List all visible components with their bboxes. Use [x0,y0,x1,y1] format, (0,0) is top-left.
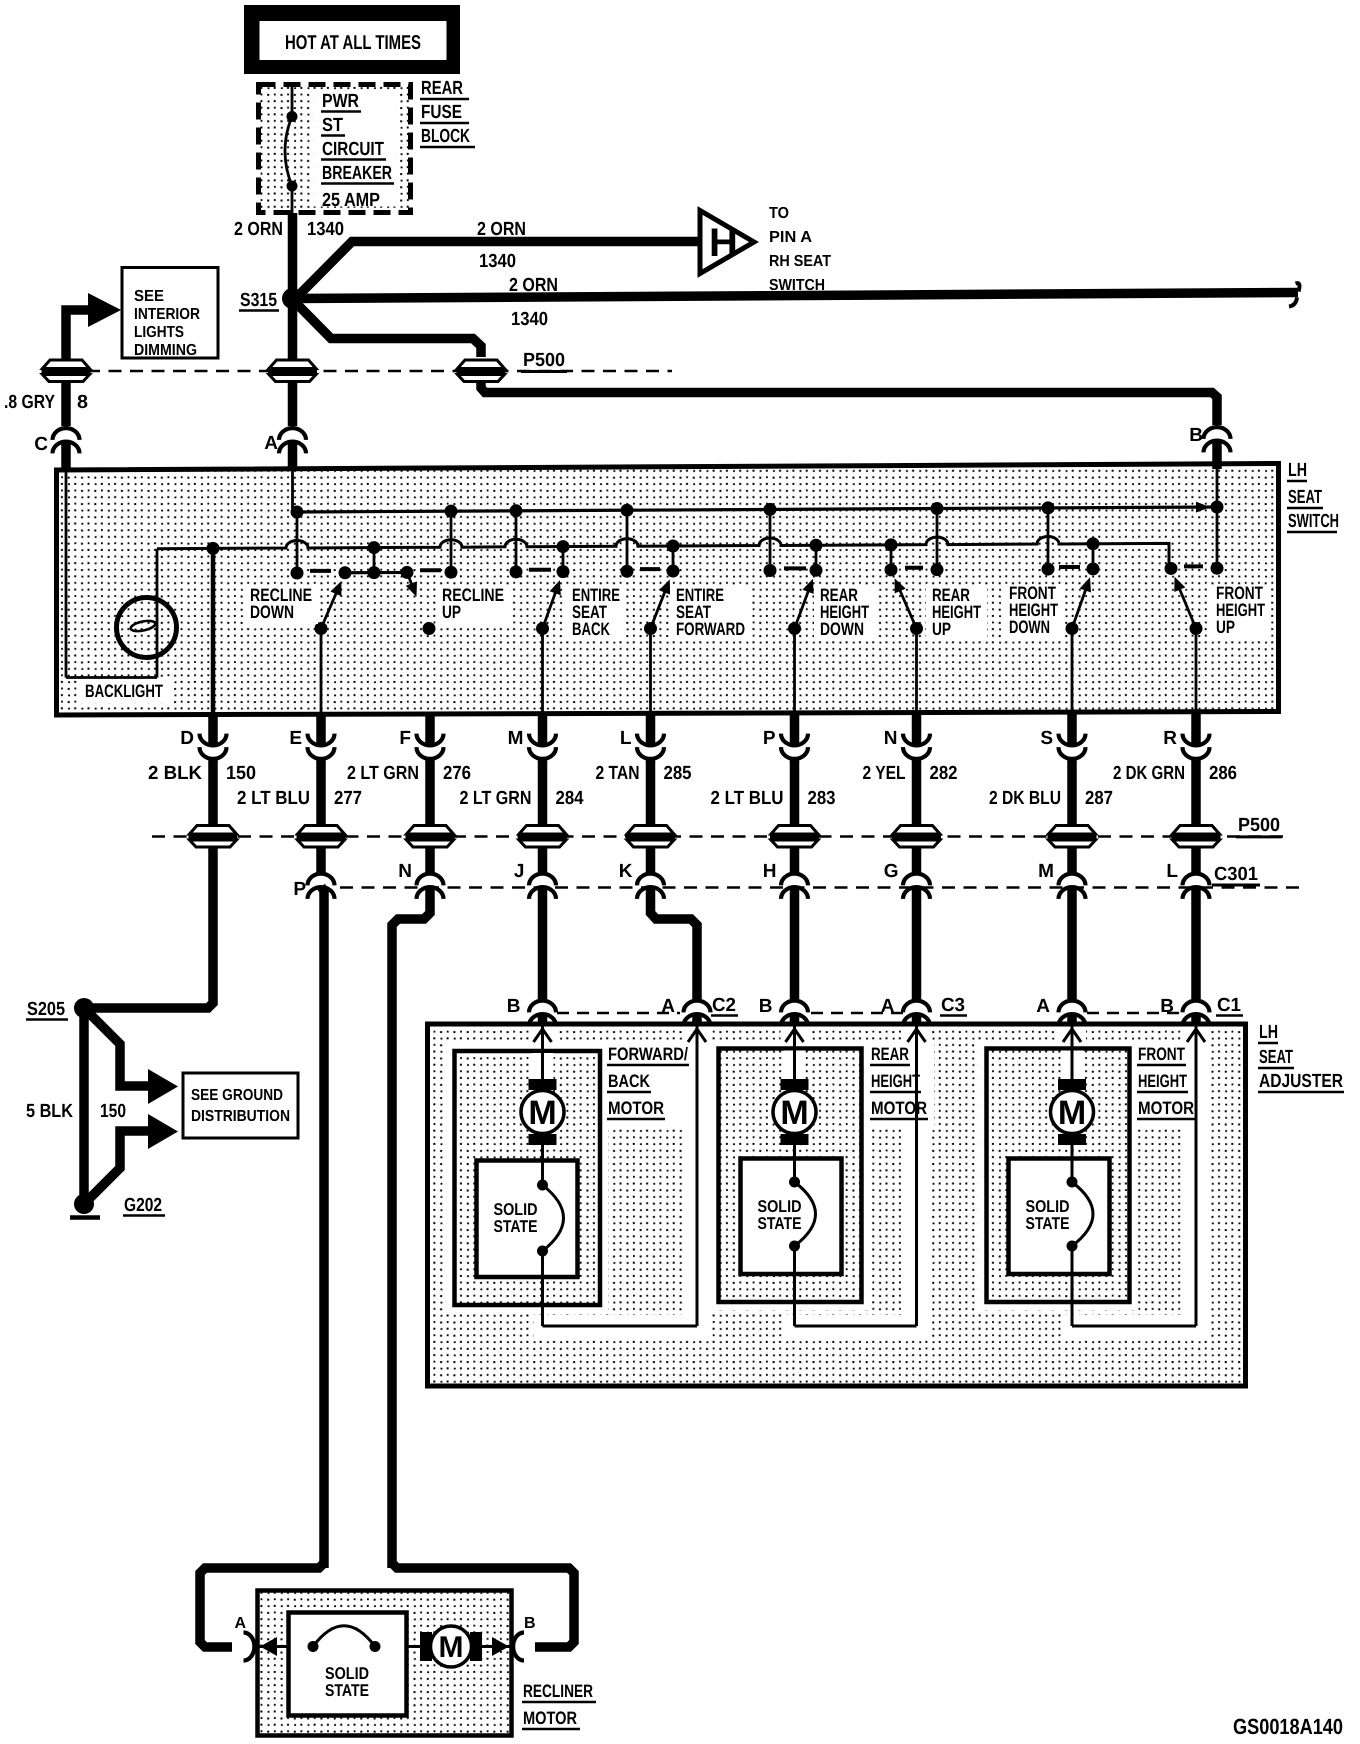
svg-text:C301: C301 [1214,864,1258,885]
svg-text:A: A [234,1615,246,1632]
label C2 [711,995,738,1016]
wire C1-A into adjuster box [1067,1014,1077,1026]
svg-text:G: G [884,861,899,882]
wire into pin C [61,383,71,426]
grommet P500 center [268,360,317,382]
label C3 [940,995,967,1016]
wire pin B to box [1212,440,1222,469]
svg-text:P500: P500 [1238,815,1280,836]
wire branch to ground distribution (upper) [90,1014,148,1086]
rail1 junction and contact feed at x=1048 [1042,501,1055,575]
svg-text:SEAT: SEAT [1288,487,1322,508]
connector C301 pin P [293,874,334,900]
svg-text:N: N [884,728,898,749]
switch contact dashed link 1059-1080 [1059,565,1080,569]
svg-text:A: A [661,996,675,1017]
switch contact dashed link 310-331 [310,569,331,573]
wire stub pin M [538,712,548,746]
svg-text:277: 277 [334,788,362,809]
svg-text:286: 286 [1209,763,1237,784]
label FRONT HEIGHT MOTOR [1137,1044,1195,1119]
connector pin M [508,728,556,759]
svg-text:DOWN: DOWN [250,602,294,622]
svg-text:LIGHTS: LIGHTS [134,324,184,341]
ground G202 [70,1194,165,1218]
grommet P500 pin E [297,826,346,848]
svg-text:E: E [289,728,302,749]
connector C301 pin J [514,861,556,899]
svg-text:2 LT BLU: 2 LT BLU [237,788,310,809]
FRONT HEIGHT MOTOR return wire [1072,1027,1205,1327]
svg-text:MOTOR: MOTOR [1138,1098,1194,1118]
REAR HEIGHT MOTOR solid state element [789,1159,816,1275]
svg-text:S205: S205 [27,999,65,1020]
svg-text:BREAKER: BREAKER [322,163,392,184]
svg-text:282: 282 [930,763,958,784]
connector pin B [1189,425,1230,452]
switch output line x=794.5 [793,629,796,715]
label P500 (lower) [1236,815,1282,837]
rail2 junction and contact feed at x=1093 [1087,537,1100,575]
svg-text:C3: C3 [941,995,965,1016]
svg-text:H: H [763,861,777,882]
svg-text:GS0018A140: GS0018A140 [1233,1714,1343,1739]
label RECLINE UP [436,585,510,624]
REAR HEIGHT MOTOR unit box [719,1049,862,1303]
svg-text:287: 287 [1085,788,1113,809]
rail1 junction and contact feed at x=297 [291,506,304,580]
label FRONT HEIGHT DOWN [1003,583,1064,639]
wire pin E to P500 [316,760,326,837]
switch contact dashed link 905-923 [905,566,923,570]
switch contact dashed link 640-660 [640,567,660,571]
FORWARD/BACK MOTOR feed wire [532,1027,554,1080]
label ENTIRE SEAT BACK [566,585,626,641]
switch FRONT HEIGHT UP [1174,577,1202,635]
wire C2-A into adjuster box [692,1014,702,1026]
wire 2 ORN 1340 to RH seat switch [294,242,700,301]
svg-text:J: J [514,861,525,882]
switch output line x=916.5 [915,629,918,715]
value label 2 ORN 1340 (vertical feed) [234,219,344,240]
FORWARD/BACK MOTOR solid state box [477,1161,578,1278]
svg-text:B: B [1160,996,1174,1017]
svg-text:SEE GROUND: SEE GROUND [191,1087,283,1104]
svg-text:BACK: BACK [572,619,610,639]
value label 2 YEL 282 [863,763,958,784]
backlight lamp [66,470,177,678]
FORWARD/BACK MOTOR solid state element [537,1161,564,1278]
grommet P500 pin M [518,826,567,848]
connector C301 pin M [1038,861,1085,899]
grommet P500 pin S [1048,826,1097,848]
svg-text:L: L [1166,861,1178,882]
label REAR FUSE BLOCK [420,78,475,147]
svg-text:FORWARD: FORWARD [676,619,745,639]
adjuster connector dashed links [557,1012,1183,1015]
svg-text:A: A [1036,996,1050,1017]
svg-text:DIMMING: DIMMING [134,342,197,359]
wire pin N to recliner [392,887,430,1569]
svg-text:DOWN: DOWN [1009,617,1050,637]
connector plane P500 dashed line (lower) [152,835,1288,838]
svg-text:DISTRIBUTION: DISTRIBUTION [191,1108,290,1125]
switch output line x=1196 [1195,629,1198,715]
value label 2 DK GRN 286 [1113,763,1237,784]
switch RECLINE UP [406,572,436,635]
rail2 end contact (front height up left contact) [1165,562,1178,575]
svg-text:S315: S315 [240,290,277,311]
svg-text:UP: UP [1216,617,1235,637]
connector recliner pin B [513,1615,535,1661]
connector C1-A [1036,996,1085,1026]
grommet P500 pin N [892,826,941,848]
value label 2 LT BLU 283 [711,788,836,809]
wire pin L to adjuster B [1191,887,1201,1000]
switch contact dashed link 1184-1203 [1184,564,1203,568]
FORWARD/BACK MOTOR unit box [455,1051,601,1305]
svg-text:MOTOR: MOTOR [523,1708,577,1728]
svg-text:2 LT GRN: 2 LT GRN [460,788,532,809]
switch ENTIRE SEAT FORWARD [644,579,670,635]
wire pin P elbow to recliner A [200,1563,324,1647]
label FORWARD/BACK MOTOR [607,1044,689,1119]
svg-text:R: R [1163,728,1177,749]
wire C3-B into adjuster box [790,1014,800,1026]
svg-text:1340: 1340 [479,251,516,272]
LH seat adjuster box [428,1024,1246,1386]
label C301 [1212,864,1260,885]
svg-text:STATE: STATE [325,1681,369,1700]
switch RECLINE DOWN [315,581,342,635]
svg-text:.8 GRY: .8 GRY [4,392,55,413]
wire stub pin L [646,712,656,746]
connector C3-A [881,996,930,1026]
svg-text:M: M [508,728,524,749]
svg-text:HOT AT ALL TIMES: HOT AT ALL TIMES [285,32,421,54]
svg-text:REAR: REAR [421,78,463,99]
recliner internal wire with arrows [259,1637,510,1656]
svg-text:2 TAN: 2 TAN [596,763,640,784]
switch output line x=542.5 [541,629,544,715]
wire pin P to recliner [321,887,324,1569]
svg-text:UP: UP [932,619,951,639]
svg-text:A: A [264,433,278,454]
switch contact dashed link 529-551 [529,568,551,572]
label BACKLIGHT [79,679,174,703]
connector pin P [763,728,808,759]
svg-text:P500: P500 [523,350,565,371]
svg-text:2 YEL: 2 YEL [863,763,906,784]
connector recliner pin A [234,1615,254,1661]
REAR HEIGHT MOTOR feed wire [784,1027,806,1080]
power feed box HOT AT ALL TIMES [244,5,460,74]
wire pin N to P500 [912,760,922,837]
switch REAR HEIGHT DOWN [788,579,814,635]
rail1 junction and contact feed at x=627 [621,504,634,578]
svg-text:UP: UP [442,602,461,622]
connector C2-A [661,996,710,1026]
svg-text:F: F [399,728,411,749]
connector C301 pin K [619,861,664,899]
svg-text:25 AMP: 25 AMP [322,190,380,211]
recliner solid state element [308,1626,381,1652]
label REAR HEIGHT MOTOR [870,1044,928,1119]
wire stub pin R [1191,712,1201,746]
connector pin N [884,728,930,759]
svg-text:P: P [763,728,776,749]
wire pin M to P500 [538,760,548,837]
svg-text:C2: C2 [712,995,736,1016]
drawing number GS0018A140 [1233,1714,1343,1739]
REAR HEIGHT MOTOR motor M [773,1079,816,1159]
svg-text:M: M [528,1094,556,1132]
recliner solid state box [289,1613,407,1716]
svg-text:DOWN: DOWN [820,619,864,639]
rail1 junction and contact feed at x=516 [510,504,523,578]
connector C2-B [507,996,556,1026]
rail2 junction and contact feed at x=891 [885,538,898,576]
splice S205 [26,998,94,1020]
wire pin R below P500 [1191,848,1201,873]
svg-text:284: 284 [556,788,584,809]
FRONT HEIGHT MOTOR solid state box [1009,1159,1110,1275]
svg-text:B: B [507,996,521,1017]
wire pin S to P500 [1067,760,1077,837]
wire into pin A [288,383,298,426]
svg-text:M: M [1038,861,1054,882]
wire pin F to P500 [425,760,435,837]
svg-text:K: K [619,861,633,882]
circuit breaker PWR ST symbol [285,85,298,213]
wire stub pin S [1067,712,1077,746]
svg-text:B: B [759,996,773,1017]
wire stub pin N [912,712,922,746]
value label 5 BLK 150 [26,1101,126,1122]
label C1 [1216,995,1243,1016]
grommet P500 pin R [1172,826,1221,848]
FRONT HEIGHT MOTOR white channels [979,1027,1209,1338]
seat switch feed from pin B [1216,466,1219,568]
svg-text:HEIGHT: HEIGHT [871,1071,920,1091]
svg-text:PWR: PWR [322,91,359,112]
svg-text:276: 276 [443,763,471,784]
value label 2 DK BLU 287 [989,788,1113,809]
rear fuse block stipple box (dashed) [259,85,411,213]
svg-text:C: C [34,434,48,455]
svg-text:P: P [293,879,306,900]
svg-text:5 BLK: 5 BLK [26,1101,73,1122]
wire 2 ORN 1340 going right [294,283,1300,306]
REAR HEIGHT MOTOR white channels [711,1027,935,1338]
switch output line x=1072 [1071,629,1074,715]
value label .8 GRY 8 [4,392,88,413]
svg-text:1340: 1340 [511,309,548,330]
FORWARD/BACK MOTOR return wire [543,1027,707,1327]
rail1 junction and contact feed at x=770 [764,503,777,577]
wire pin A to box [288,441,298,470]
connector C301 pin H [763,861,808,899]
REAR HEIGHT MOTOR return wire [795,1027,926,1327]
switch FRONT HEIGHT DOWN [1066,577,1092,635]
connector pin A [264,428,306,454]
connector pin F [399,728,443,759]
svg-text:B: B [524,1615,536,1632]
svg-text:MOTOR: MOTOR [608,1098,664,1118]
svg-text:RECLINER: RECLINER [523,1681,593,1701]
rail2 junction and contact feed at x=374 [368,541,381,579]
svg-text:FORWARD/: FORWARD/ [608,1044,688,1064]
wire stub pin P [790,712,800,746]
label ENTIRE SEAT FORWARD [670,585,751,641]
svg-text:BACKLIGHT: BACKLIGHT [85,681,163,701]
svg-text:2 LT BLU: 2 LT BLU [711,788,784,809]
connector pin E [289,728,334,759]
label TO PIN A RH SEAT SWITCH [769,205,831,294]
wire pin P below P500 [790,848,800,873]
wire pin H to adjuster B [790,887,800,1000]
arrow to ground distribution (lower) [148,1114,178,1149]
wire pin G to adjuster A [912,887,922,1000]
svg-text:CIRCUIT: CIRCUIT [322,139,384,160]
svg-text:285: 285 [664,763,692,784]
FRONT HEIGHT MOTOR motor M [1051,1079,1094,1159]
wire pin N below P500 [912,848,922,873]
value label 2 LT BLU 277 [237,788,362,809]
svg-text:FUSE: FUSE [421,102,462,123]
wire pin F below P500 [425,848,435,873]
label REAR HEIGHT UP [926,585,987,641]
label FRONT HEIGHT UP [1210,583,1271,639]
svg-text:M: M [780,1094,808,1132]
svg-text:SEE: SEE [134,288,164,305]
FORWARD/BACK MOTOR white channels [447,1027,710,1338]
rail2 junction and contact feed at x=563 [557,540,570,578]
wire 2 ORN to seat switch pin B [294,301,1217,425]
value label 2 TAN 285 [596,763,692,784]
svg-text:INTERIOR: INTERIOR [134,306,200,323]
svg-text:LH: LH [1259,1022,1278,1043]
wire .8 GRY 8 to interior lights dimming [66,310,88,359]
FRONT HEIGHT MOTOR unit box [987,1049,1130,1303]
svg-text:2 BLK: 2 BLK [148,763,202,784]
wire pin D to P500 [208,760,218,837]
svg-text:N: N [398,861,412,882]
svg-text:2 ORN: 2 ORN [234,219,283,240]
connector pin R [1163,728,1209,759]
svg-text:1340: 1340 [307,219,344,240]
svg-text:H: H [709,221,738,265]
svg-text:STATE: STATE [1026,1214,1070,1233]
grommet P500 pin D [189,826,238,848]
grommet P500 left [42,360,91,382]
rail1 junction and contact feed at x=451 [445,505,458,579]
switch output D from rail2 [207,542,220,715]
wire pin N elbow to recliner B [392,1563,574,1647]
svg-text:150: 150 [226,763,256,784]
wire S315 to grommet [288,306,298,359]
wire C1-B into adjuster box [1191,1014,1201,1026]
wire pin K to adjuster A [651,887,698,1000]
label RECLINER MOTOR [522,1681,596,1729]
connector plane P500 dashed line (upper) [44,370,672,373]
label LH SEAT ADJUSTER [1258,1022,1344,1092]
connector C1-B [1160,996,1209,1026]
value label 2 LT GRN 284 [460,788,584,809]
REAR HEIGHT MOTOR solid state box [741,1159,842,1275]
arrow to see interior lights dimming [88,293,121,327]
wire 2 BLK 150 pin D to S205 [90,848,213,1008]
wire pin M to adjuster A [1067,887,1077,1000]
svg-text:2 DK GRN: 2 DK GRN [1113,763,1185,784]
svg-text:STATE: STATE [758,1214,802,1233]
wire pin L below P500 [646,848,656,873]
svg-text:150: 150 [100,1101,126,1122]
wire 2 ORN 1340 breaker to S315 [288,213,298,298]
wire stub pin D [208,712,218,746]
wire pin M below P500 [538,848,548,873]
svg-text:TO: TO [769,205,789,222]
rail2 junction and contact feed at x=816 [810,539,823,577]
svg-text:BACK: BACK [608,1071,650,1091]
splice S315 [239,288,303,311]
connector pin S [1040,728,1085,759]
svg-text:G202: G202 [124,1195,162,1216]
switch output line x=650.5 [649,629,652,715]
svg-text:C1: C1 [1217,995,1241,1016]
svg-text:D: D [180,728,194,749]
svg-text:A: A [881,996,895,1017]
svg-text:S: S [1040,728,1053,749]
svg-text:MOTOR: MOTOR [871,1098,927,1118]
wire C3-A into adjuster box [912,1014,922,1026]
svg-text:M: M [1058,1094,1086,1132]
off-page arrow H to pin A RH seat switch [700,211,754,274]
svg-text:B: B [1189,425,1203,446]
recliner motor box [258,1591,512,1736]
connector C301 pin G [884,861,930,899]
svg-text:2 ORN: 2 ORN [477,219,526,240]
value label 2 BLK 150 [148,763,256,784]
switch contact dashed link 420-441 [420,568,441,572]
grommet P500 pin P [770,826,819,848]
box SEE INTERIOR LIGHTS DIMMING [122,268,218,360]
value label 2 LT GRN 276 [347,763,471,784]
label P500 (upper) [521,350,567,372]
wire pin S below P500 [1067,848,1077,873]
svg-text:SWITCH: SWITCH [1288,511,1339,532]
value label 2 ORN 1340 (upper branch) [477,219,526,272]
svg-text:8: 8 [77,392,88,413]
connector C3-B [759,996,808,1026]
svg-text:HEIGHT: HEIGHT [1138,1071,1187,1091]
switch REAR HEIGHT UP [895,578,923,635]
grommet P500 pin L [626,826,675,848]
recline switch common link [339,566,414,579]
rail1 junction pin B feed [1211,501,1224,575]
connector C301 pin L [1166,861,1209,899]
wire pin L to P500 [646,760,656,837]
svg-text:283: 283 [808,788,836,809]
svg-text:M: M [439,1631,464,1664]
connector pin C [34,428,79,455]
svg-text:FRONT: FRONT [1138,1044,1185,1064]
connector plane C301 dashed line [340,886,1300,889]
svg-text:BLOCK: BLOCK [421,126,470,147]
recliner motor M [420,1626,482,1667]
FRONT HEIGHT MOTOR solid state element [1067,1159,1094,1275]
svg-text:ADJUSTER: ADJUSTER [1259,1071,1343,1092]
